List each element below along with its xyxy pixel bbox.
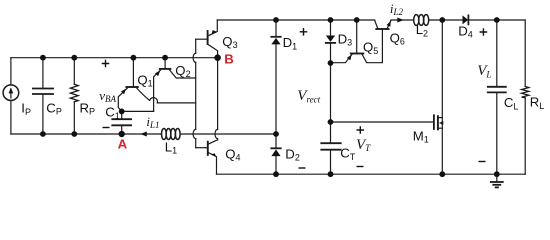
wire C1 node to Q2 emitter	[122, 110, 154, 112]
arrow of IP	[9, 87, 14, 93]
inductor L1	[162, 129, 167, 140]
junction dot C1 top plate node	[119, 109, 125, 115]
transistor Q4	[196, 147, 208, 149]
wire top-left rail	[11, 57, 218, 59]
junction dot Q5 base top rail	[354, 17, 360, 23]
junction dot CP top rail	[40, 55, 46, 61]
transistor Q1	[132, 58, 134, 86]
svg-text:Q5: Q5	[363, 40, 378, 56]
diode D2 triangle	[271, 149, 280, 156]
arrow of Q4	[211, 153, 216, 156]
transistor Q6	[376, 28, 388, 30]
svg-text:Q3: Q3	[222, 34, 237, 50]
capacitor C1	[121, 111, 123, 119]
svg-text:RP: RP	[80, 101, 96, 117]
resistor RP	[73, 58, 75, 85]
diode D1	[275, 20, 277, 36]
svg-text:D2: D2	[285, 146, 300, 162]
diode D4	[467, 15, 469, 24]
minus VT	[357, 166, 364, 168]
node B dot	[214, 54, 221, 61]
junction dot D3 top rail	[328, 17, 334, 23]
svg-text:L2: L2	[416, 22, 428, 38]
diode D4 triangle	[463, 15, 469, 24]
wire base line Q3-Q4 x195.7 with hops	[195, 39, 197, 53]
ground	[496, 174, 498, 182]
svg-text:VL: VL	[477, 63, 491, 79]
junction dot M1 source bottom rail	[439, 171, 445, 177]
capacitor CP	[42, 58, 44, 89]
junction dot D1 top rail	[273, 17, 279, 23]
arrow of Q1	[121, 89, 126, 95]
inductor L2	[414, 15, 419, 26]
junction dot Q2 base top rail	[162, 55, 168, 61]
capacitor CL	[496, 20, 498, 87]
plus-minus polarity marks	[102, 28, 488, 168]
plus VL	[480, 28, 488, 36]
svg-text:Q6: Q6	[390, 31, 405, 47]
MOSFET M1 gate rail	[331, 121, 434, 123]
svg-text:iL2: iL2	[390, 1, 404, 17]
arrow of Q6	[387, 21, 391, 27]
junction dot CT bottom rail	[328, 171, 334, 177]
minus Vrect	[299, 167, 306, 169]
plus Vrect	[300, 28, 308, 36]
arrow of Q2	[155, 71, 160, 77]
top rail	[217, 19, 374, 21]
svg-text:Q4: Q4	[225, 147, 240, 163]
svg-text:D4: D4	[458, 23, 473, 39]
diode D2	[275, 134, 277, 148]
diode D3	[330, 20, 332, 36]
svg-text:Q2: Q2	[175, 63, 190, 79]
plus vBA	[102, 60, 110, 68]
svg-text:CT: CT	[340, 146, 356, 162]
transistor Q2	[164, 58, 166, 68]
plus VT	[357, 126, 365, 134]
MOSFET M1	[433, 115, 435, 129]
svg-text:A: A	[118, 137, 128, 152]
wire hop Q1 collector over Q2 emitter	[150, 98, 158, 103]
current arrow iL1	[140, 132, 147, 137]
minus vBA	[103, 127, 110, 129]
svg-text:D3: D3	[338, 31, 353, 47]
junction dot Q1 base top rail	[131, 55, 137, 61]
node A dot	[119, 131, 125, 137]
transistor Q3	[196, 38, 208, 40]
svg-text:IP: IP	[21, 101, 31, 117]
junction dot D3-CT gate node	[328, 119, 334, 125]
resistor RL	[524, 20, 526, 87]
junction dot RP top rail	[71, 55, 77, 61]
wire left edge	[10, 58, 12, 85]
svg-text:B: B	[224, 52, 234, 67]
junction dot RP bottom rail	[71, 131, 77, 137]
MOSFET M1 drain-source line	[441, 20, 443, 174]
svg-text:vBA: vBA	[99, 88, 116, 104]
diode D1 triangle	[271, 38, 280, 45]
wire bottom-left rail node A	[11, 133, 162, 135]
junction dot D4-CL top rail	[494, 17, 500, 23]
arrow of Q3	[212, 30, 217, 34]
svg-text:D1: D1	[283, 35, 298, 51]
junction dot D1-D2 mid rail	[273, 131, 279, 137]
svg-text:Vrect: Vrect	[297, 88, 320, 104]
wire node B vertical with hop	[217, 58, 219, 130]
junction dot L2-D4-M1 drain	[439, 17, 445, 23]
bottom rail	[217, 173, 526, 175]
svg-text:CP: CP	[46, 100, 62, 116]
junction dot CL-ground bottom rail	[494, 171, 500, 177]
svg-text:CL: CL	[504, 95, 519, 111]
svg-text:L1: L1	[165, 139, 177, 155]
capacitor CT	[330, 122, 332, 143]
svg-text:iL1: iL1	[146, 114, 159, 130]
svg-text:C1: C1	[105, 105, 120, 121]
current arrow iL2	[397, 18, 404, 23]
diode D3 triangle	[326, 36, 335, 42]
svg-text:VT: VT	[356, 137, 371, 153]
minus VL	[479, 161, 486, 163]
svg-text:M1: M1	[413, 128, 429, 144]
junction dot CP bottom rail	[40, 131, 46, 137]
junction dot Q5 emitter on D3 branch	[328, 60, 334, 66]
arrow of M1	[439, 121, 443, 125]
current source IP	[3, 85, 19, 101]
arrow of Q5	[347, 55, 352, 61]
svg-text:Q1: Q1	[137, 73, 152, 89]
svg-text:RL: RL	[530, 95, 545, 111]
junction dot D2 bottom rail	[273, 171, 279, 177]
transistor Q5	[356, 20, 358, 52]
